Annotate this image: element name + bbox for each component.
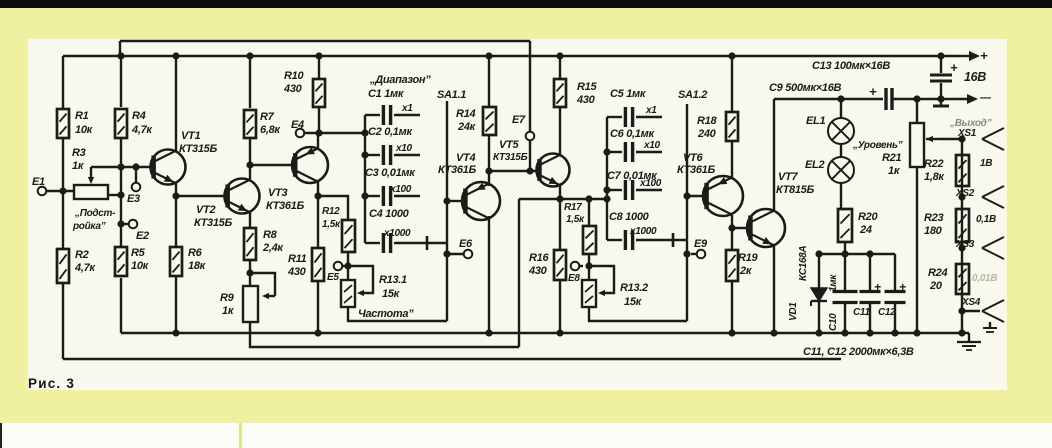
svg-text:Частота”: Частота” — [358, 308, 414, 320]
svg-text:EL1: EL1 — [806, 115, 825, 127]
svg-text:х100: х100 — [639, 178, 662, 189]
svg-text:R13.2: R13.2 — [620, 282, 648, 294]
wire R5 to bus C — [120, 278, 122, 333]
svg-text:R18: R18 — [697, 115, 717, 127]
label E1 — [32, 176, 45, 188]
wire bottom bus C — [121, 332, 969, 334]
wire R16 to bus C — [556, 280, 563, 337]
node junction EL tap — [837, 95, 844, 102]
wire XS4 to bus C — [958, 311, 965, 337]
capacitor C11 — [860, 254, 882, 337]
wire VT1 collector — [172, 52, 179, 152]
capacitor C3 — [361, 186, 420, 206]
terminal E4 — [296, 129, 305, 138]
wire VT3 collector — [317, 182, 319, 248]
label R9 — [220, 292, 235, 317]
svg-text:SA1.1: SA1.1 — [437, 89, 466, 101]
wire VT7 base — [732, 227, 751, 229]
svg-text:х1000: х1000 — [629, 226, 657, 237]
label XS2 — [955, 188, 975, 199]
label minus — [979, 92, 992, 104]
node junction VT5 base tap — [485, 167, 492, 174]
wire bank1 left rail — [364, 115, 366, 243]
node arrow + on bus B end — [962, 51, 980, 61]
resistor R7 — [244, 110, 256, 138]
label 001V — [972, 273, 997, 284]
node junction E5 — [344, 262, 351, 269]
potentiometer R3 — [74, 167, 121, 199]
switch SA1.2 — [686, 104, 688, 321]
svg-text:Е8: Е8 — [568, 273, 580, 284]
svg-text:10к: 10к — [75, 124, 94, 136]
svg-text:R21: R21 — [882, 152, 901, 164]
svg-text:VT7: VT7 — [778, 171, 798, 183]
svg-text:R5: R5 — [131, 247, 146, 259]
resistor R12 — [342, 220, 355, 252]
label R6 — [188, 247, 207, 272]
svg-text:R22: R22 — [924, 158, 943, 170]
label R24 — [928, 267, 947, 292]
capacitor C1 — [365, 105, 420, 125]
wire VT5 base — [489, 170, 541, 172]
svg-text:R8: R8 — [263, 229, 278, 241]
svg-text:„Уровень”: „Уровень” — [852, 140, 903, 151]
svg-text:XS4: XS4 — [961, 297, 981, 308]
capacitor C9 — [886, 88, 941, 110]
node junction XS2 — [958, 193, 965, 200]
svg-text:х10: х10 — [395, 143, 413, 154]
transistor VT1 — [151, 150, 186, 185]
label R18 — [697, 115, 717, 140]
terminal E5 — [334, 262, 348, 271]
label XS4 — [961, 297, 981, 308]
ground small — [983, 322, 997, 332]
svg-text:430: 430 — [528, 265, 548, 277]
transistor VT7 — [747, 209, 785, 247]
svg-text:КТ815Б: КТ815Б — [776, 184, 814, 196]
resistor R23 — [956, 209, 969, 242]
node junction SA1.1-E6 — [443, 250, 450, 257]
node junction XS1 — [958, 135, 965, 142]
wire main top bus B — [63, 55, 962, 57]
wire VT7 emitter — [770, 246, 777, 337]
resistor R15 — [554, 79, 566, 107]
wire R13.2 bottom — [589, 307, 687, 321]
svg-text:С6 0,1мк: С6 0,1мк — [610, 128, 655, 140]
wire VT3 base — [250, 164, 296, 166]
svg-text:R20: R20 — [858, 211, 878, 223]
wire VT3 emitter up — [317, 133, 319, 149]
svg-text:18к: 18к — [188, 260, 207, 272]
bottom divider line — [239, 423, 242, 448]
label Vyhod — [949, 118, 992, 129]
svg-text:1к: 1к — [888, 165, 901, 177]
lamp EL2 — [828, 144, 854, 183]
wire R15 top — [556, 52, 563, 79]
svg-text:С12: С12 — [878, 307, 896, 318]
label SA1.1 — [437, 89, 466, 101]
ground main — [957, 333, 981, 350]
wire drop to bus D — [518, 199, 520, 347]
resistor R1 — [57, 109, 69, 138]
wire feed bank2 — [519, 195, 611, 202]
svg-text:1,8к: 1,8к — [924, 171, 945, 183]
svg-text:15к: 15к — [382, 288, 401, 300]
svg-text:0,1В: 0,1В — [976, 214, 996, 225]
wire R6 to bus C — [172, 276, 179, 337]
label R15 — [576, 81, 597, 106]
label VT7 — [776, 171, 814, 196]
label VT1 — [179, 130, 217, 155]
wire VT5 collector — [559, 107, 561, 155]
svg-text:1мк: 1мк — [828, 274, 839, 292]
svg-text:R10: R10 — [284, 70, 304, 82]
svg-text:R9: R9 — [220, 292, 235, 304]
transistor VT5 — [537, 154, 570, 187]
svg-text:VT4: VT4 — [456, 152, 475, 164]
label C7 — [607, 170, 662, 189]
svg-text:EL2: EL2 — [805, 159, 824, 171]
connector XS2 — [982, 186, 1004, 208]
wire VT1 base — [91, 166, 151, 168]
label C13 — [812, 60, 958, 75]
node dots bus C — [0, 0, 1, 1]
wire column to E2 — [120, 167, 122, 247]
svg-text:+: + — [899, 280, 906, 294]
bottom white band — [0, 423, 1052, 448]
label E9 — [694, 238, 708, 250]
resistor R18 — [726, 112, 738, 141]
resistor R5 — [115, 247, 127, 276]
wire R7 top — [246, 52, 253, 108]
resistor R20 — [838, 209, 852, 242]
node junction base-R4 — [117, 163, 124, 170]
svg-text:1к: 1к — [222, 305, 235, 317]
svg-text:КТ315Б: КТ315Б — [194, 217, 232, 229]
svg-text:1,5к: 1,5к — [322, 219, 341, 230]
label C9 — [769, 82, 877, 99]
wire R17 bottom — [588, 254, 590, 280]
svg-text:XS3: XS3 — [955, 239, 975, 250]
svg-text:Е9: Е9 — [694, 238, 708, 250]
transistor VT6 — [703, 176, 743, 216]
wire VT1 emitter node — [172, 182, 179, 247]
svg-text:R23: R23 — [924, 212, 943, 224]
svg-text:430: 430 — [287, 266, 307, 278]
svg-text:С9 500мк×16В: С9 500мк×16В — [769, 82, 842, 94]
svg-text:4,7к: 4,7к — [131, 124, 153, 136]
label C3 — [365, 167, 416, 195]
label R21 — [882, 152, 901, 177]
resistor R10 — [313, 79, 325, 107]
label XS3 — [955, 239, 975, 250]
terminal E2 — [121, 220, 137, 229]
label EL2 — [805, 159, 824, 171]
capacitor C13 — [930, 52, 952, 106]
label C11C12 value — [803, 346, 914, 358]
resistor R6 — [170, 247, 182, 276]
label R11 — [287, 253, 307, 278]
label R16 — [528, 252, 549, 277]
wire R4 to base wire — [120, 138, 122, 167]
potentiometer R9 — [243, 269, 275, 322]
svg-text:10к: 10к — [131, 260, 150, 272]
svg-text:VT2: VT2 — [196, 204, 215, 216]
svg-text:R7: R7 — [260, 111, 275, 123]
label R5 — [131, 247, 150, 272]
label R8 — [262, 229, 284, 254]
wire left column top — [62, 56, 64, 109]
connector XS1 — [982, 128, 1004, 150]
svg-text:С10: С10 — [828, 313, 839, 331]
label C1 — [368, 88, 413, 114]
label R1 — [75, 110, 94, 136]
wire VT2 base — [176, 195, 228, 197]
node junction VT7 base — [728, 224, 735, 231]
wire EL2 to R20 — [840, 183, 842, 209]
svg-text:+: + — [869, 84, 877, 99]
capacitor C8 — [607, 230, 687, 250]
wire VT2 emitter — [249, 212, 251, 228]
resistor R24 — [956, 264, 969, 294]
svg-text:R15: R15 — [577, 81, 597, 93]
svg-text:—: — — [979, 92, 992, 104]
connector XS4 — [962, 296, 1004, 322]
transistor VT3 — [292, 147, 328, 183]
label C2 — [368, 126, 413, 154]
potentiometer R13.1 — [341, 266, 373, 307]
wire R12 to R13.1 — [347, 252, 349, 280]
label C11 — [853, 307, 870, 318]
svg-text:х100: х100 — [389, 184, 412, 195]
figure caption Ris.3 — [28, 376, 75, 391]
label R7 — [260, 111, 281, 136]
svg-text:R3: R3 — [72, 147, 86, 159]
svg-text:С8 1000: С8 1000 — [609, 211, 650, 223]
wire bottom bus D — [250, 322, 519, 347]
svg-text:15к: 15к — [624, 296, 643, 308]
label R17 — [564, 202, 585, 225]
wire bottom bus E — [63, 358, 841, 360]
node junction E1-column — [59, 187, 66, 194]
label R19 — [738, 252, 758, 277]
wire R18 top — [728, 52, 735, 112]
svg-text:R1: R1 — [75, 110, 89, 122]
svg-text:Е3: Е3 — [127, 193, 140, 205]
transistor VT4 — [462, 182, 500, 220]
wire R9 to bus D — [0, 0, 1, 1]
label 01V — [976, 214, 996, 225]
wire VT7 collector — [773, 99, 775, 210]
wire top rect bus A — [120, 41, 530, 131]
label Diapazon — [369, 74, 431, 86]
label C10 — [828, 274, 839, 331]
svg-text:ройка”: ройка” — [72, 221, 106, 232]
label VT2 — [194, 204, 232, 229]
wire R10 bottom — [318, 107, 320, 133]
terminal E7 — [526, 132, 535, 175]
capacitor C12 — [885, 254, 907, 337]
label E3 — [127, 193, 140, 205]
label VD1 — [788, 302, 799, 321]
svg-text:VT3: VT3 — [268, 187, 287, 199]
svg-text:С11: С11 — [853, 307, 870, 318]
svg-text:х1: х1 — [645, 105, 657, 116]
svg-text:VD1: VD1 — [788, 302, 799, 321]
svg-text:С4 1000: С4 1000 — [369, 208, 410, 220]
svg-text:R24: R24 — [928, 267, 947, 279]
svg-text:Е1: Е1 — [32, 176, 45, 188]
svg-text:430: 430 — [576, 94, 596, 106]
potentiometer R21 — [910, 99, 938, 337]
node junction R21 top — [913, 95, 920, 102]
svg-text:R17: R17 — [564, 202, 582, 213]
wire R13.1 bottom — [348, 307, 447, 321]
capacitor C10 — [833, 254, 858, 337]
node junction E8 — [585, 262, 592, 269]
label VT3 — [266, 187, 304, 212]
capacitor C4 — [365, 233, 447, 253]
white schematic panel — [28, 39, 1007, 390]
resistor R16 — [554, 250, 566, 280]
label E4 — [291, 119, 304, 131]
node junction E2 — [117, 220, 124, 227]
svg-text:SA1.2: SA1.2 — [678, 89, 707, 101]
label E6 — [459, 238, 473, 250]
wire R2 to bus E — [62, 283, 64, 359]
label R13.2 — [620, 282, 648, 308]
svg-text:х1000: х1000 — [383, 228, 411, 239]
svg-text:240: 240 — [697, 128, 717, 140]
wire VT4 base — [443, 197, 463, 204]
svg-text:R12: R12 — [322, 206, 340, 217]
wire R19 to bus C — [728, 281, 735, 337]
label Podstroyka — [72, 208, 116, 232]
svg-text:VT1: VT1 — [181, 130, 200, 142]
svg-text:R2: R2 — [75, 249, 89, 261]
svg-text:Е5: Е5 — [327, 272, 339, 283]
svg-text:КТ315Б: КТ315Б — [179, 143, 217, 155]
wire VT4 emitter up — [488, 135, 490, 186]
svg-text:С11, С12 2000мк×6,3В: С11, С12 2000мк×6,3В — [803, 346, 914, 358]
label R4 — [131, 110, 153, 136]
svg-text:С13 100мк×16В: С13 100мк×16В — [812, 60, 890, 72]
svg-text:+: + — [874, 280, 881, 294]
node junction VT3 collector — [314, 192, 321, 199]
label R20 — [858, 211, 878, 236]
label R10 — [283, 70, 304, 95]
wire minus arrow — [941, 94, 978, 104]
svg-text:4,7к: 4,7к — [74, 262, 96, 274]
terminal E6 — [447, 250, 472, 259]
svg-text:R4: R4 — [132, 110, 146, 122]
wire VT6 emitter up — [731, 141, 733, 178]
wire VT4 collector — [485, 216, 492, 337]
svg-text:R14: R14 — [456, 108, 475, 120]
svg-text:С1 1мк: С1 1мк — [368, 88, 405, 100]
svg-text:Е6: Е6 — [459, 238, 473, 250]
capacitor C2 — [361, 145, 420, 165]
svg-text:0,01В: 0,01В — [972, 273, 997, 284]
label VT6 — [677, 152, 715, 176]
label EL1 — [806, 115, 825, 127]
node junction C13 bottom — [937, 95, 944, 102]
wire bank2 left rail — [606, 117, 608, 240]
wire power line — [774, 98, 883, 100]
label E7 — [512, 114, 526, 126]
resistor R11 — [312, 248, 324, 281]
svg-text:R19: R19 — [738, 252, 758, 264]
transistor VT2 — [225, 179, 260, 214]
svg-text:2к: 2к — [739, 265, 753, 277]
label plus — [980, 48, 988, 63]
label R14 — [456, 108, 477, 133]
label R22 — [924, 158, 945, 183]
resistor R19 — [726, 250, 738, 281]
label C5 — [610, 88, 657, 116]
svg-text:24к: 24к — [457, 121, 477, 133]
label R12 — [322, 206, 341, 230]
label C4 — [369, 208, 411, 239]
label Uroven — [852, 140, 903, 151]
svg-text:+: + — [980, 48, 988, 63]
svg-text:R13.1: R13.1 — [379, 274, 407, 286]
wire R11 to bus C — [314, 281, 321, 337]
terminal E9 — [691, 250, 705, 259]
wire R17 top — [588, 199, 590, 226]
svg-text:6,8к: 6,8к — [260, 124, 281, 136]
label R13.1 — [379, 274, 407, 300]
svg-text:VT5: VT5 — [499, 139, 519, 151]
node junction VT3 base tap — [246, 161, 253, 168]
svg-text:Е4: Е4 — [291, 119, 304, 131]
svg-text:С3 0,01мк: С3 0,01мк — [365, 167, 416, 179]
terminal E1 — [38, 187, 74, 196]
svg-text:Е2: Е2 — [136, 230, 149, 242]
svg-text:24: 24 — [859, 224, 872, 236]
wire R20 bottom — [844, 242, 846, 254]
label R2 — [74, 249, 96, 274]
svg-text:430: 430 — [283, 83, 303, 95]
label 1V — [980, 158, 992, 169]
label R3 — [72, 147, 86, 172]
resistor R2 — [57, 249, 69, 283]
svg-text:2,4к: 2,4к — [262, 242, 284, 254]
label XS1 — [957, 128, 977, 139]
lamp EL1 — [828, 99, 854, 144]
diode VD1 — [811, 250, 827, 336]
label E8 — [568, 273, 580, 284]
black top strip — [0, 0, 1052, 8]
label C12 — [878, 307, 896, 318]
switch SA1.1 — [446, 101, 448, 321]
resistor R8 — [244, 228, 256, 260]
svg-text:„Подст-: „Подст- — [74, 208, 116, 219]
node junction SA1.2-E9 — [683, 250, 690, 257]
svg-text:+: + — [950, 60, 958, 75]
node junction XS4 — [958, 307, 965, 314]
capacitor C6 — [603, 142, 662, 162]
label VT4 — [438, 152, 476, 176]
svg-text:КТ361Б: КТ361Б — [677, 164, 715, 176]
svg-text:R11: R11 — [288, 253, 307, 265]
resistor R22 — [956, 155, 969, 186]
resistor R14 — [483, 107, 496, 135]
svg-text:XS2: XS2 — [955, 188, 975, 199]
svg-text:1В: 1В — [980, 158, 992, 169]
svg-text:20: 20 — [929, 280, 943, 292]
svg-text:1,5к: 1,5к — [566, 214, 585, 225]
